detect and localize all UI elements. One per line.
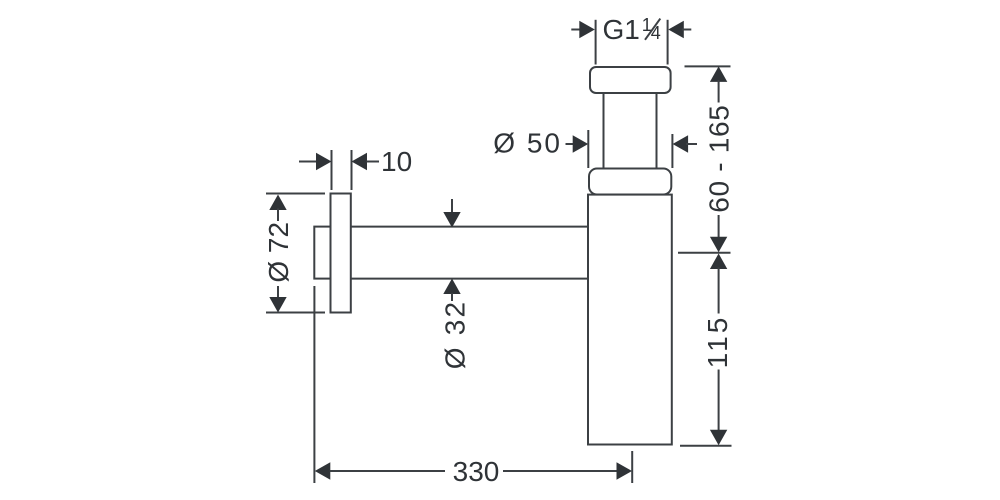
- svg-text:Ø 50: Ø 50: [493, 128, 562, 159]
- svg-text:115: 115: [702, 315, 733, 369]
- svg-text:Ø 32: Ø 32: [440, 300, 471, 370]
- svg-text:4: 4: [651, 23, 661, 43]
- svg-text:Ø 72: Ø 72: [263, 222, 294, 283]
- svg-text:10: 10: [381, 146, 412, 177]
- svg-text:60 - 165: 60 - 165: [704, 104, 735, 212]
- svg-text:330: 330: [453, 456, 500, 487]
- svg-text:G1: G1: [603, 14, 640, 45]
